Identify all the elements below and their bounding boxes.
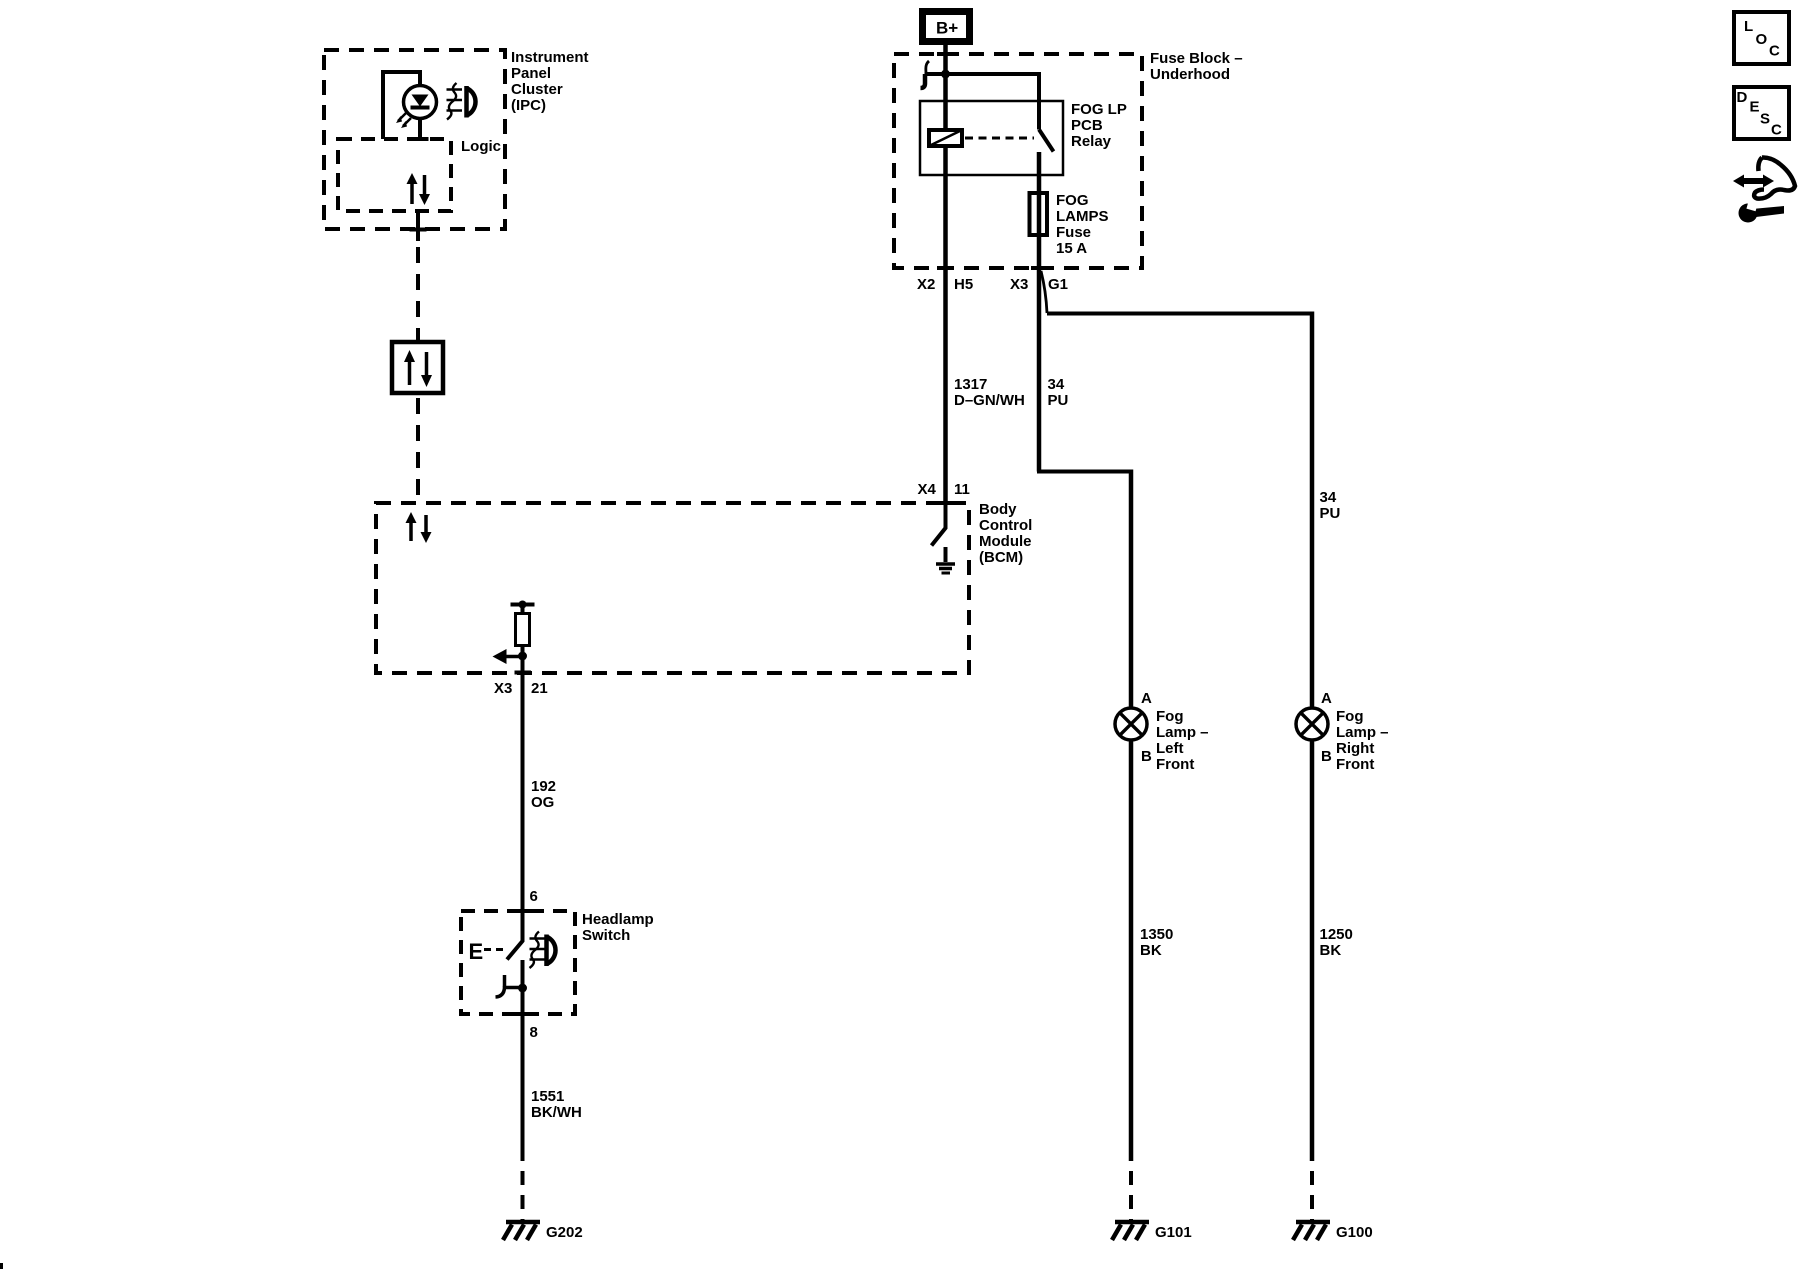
fog beam icon in switch [530,932,556,969]
LOC icon [1734,12,1789,64]
Logic box [338,139,451,211]
junction node in switch [518,984,527,993]
headlamp switch blade [507,911,523,960]
relay switch blade [1039,130,1054,152]
fog lamp right front [1296,708,1328,740]
ground G202 [503,1222,583,1241]
svg-text:PU: PU [1320,505,1341,522]
svg-text:OG: OG [531,794,554,811]
svg-text:34: 34 [1048,376,1065,393]
fog lamp left front [1115,708,1147,740]
label Body Control Module (BCM) [979,501,1032,566]
pin tick X2-H5 [937,266,954,270]
BCM resistor supply T-bar [511,601,535,614]
LED fog indicator lamp [396,86,437,129]
label FOG LAMPS Fuse 15 A [1056,192,1109,257]
connector B+ [919,8,973,45]
label Fuse Block - Underhood [1150,50,1243,83]
pin labels A B right lamp [1321,690,1332,765]
svg-text:Left: Left [1156,740,1184,757]
label 34 PU at fuse [1048,376,1069,409]
svg-text:Front: Front [1156,756,1194,773]
labels X4 11 [918,481,970,498]
svg-text:1350: 1350 [1140,926,1173,943]
ground G100 [1293,1222,1373,1241]
svg-text:Headlamp: Headlamp [582,911,654,928]
svg-text:Right: Right [1336,740,1374,757]
wire IPC indicator loop [383,72,420,139]
svg-text:A: A [1321,690,1332,707]
label Headlamp Switch [582,911,654,944]
logic up/down arrows [407,173,431,205]
svg-text:B: B [1141,748,1152,765]
wire B+ feed [943,45,948,130]
scan artifact bottom-left [0,1263,3,1269]
svg-text:21: 21 [531,680,548,697]
label 192 OG [531,778,556,811]
svg-text:C: C [1771,122,1782,139]
svg-text:Fuse: Fuse [1056,224,1091,241]
svg-text:Control: Control [979,517,1032,534]
relay coil-switch dashed link [965,137,1034,140]
svg-text:(IPC): (IPC) [511,97,546,114]
BCM internal ground [936,547,955,573]
svg-text:LAMPS: LAMPS [1056,208,1109,225]
pin labels A B left lamp [1141,690,1152,765]
pin tick X4-11 [937,501,954,505]
svg-text:G101: G101 [1155,1224,1192,1241]
wire IPC output [416,211,420,241]
label Fog Lamp - Left Front [1156,708,1209,773]
DESC icon [1734,87,1789,139]
dashed wire interface box to BCM [416,398,420,503]
svg-text:192: 192 [531,778,556,795]
svg-text:1250: 1250 [1320,926,1353,943]
wire 34 PU to right fog lamp [1047,312,1312,709]
junction node [941,70,950,79]
wire branch junction to relay switch [925,74,1040,130]
wire switch lower contact [521,960,525,1014]
wire resistor to X3 pin 21 [521,646,525,912]
svg-text:B+: B+ [936,19,958,38]
wire left fog lamp feed [1039,470,1131,709]
switch detent hook [496,975,523,997]
pin tick at Logic box top [412,137,429,141]
svg-text:Instrument: Instrument [511,49,589,66]
svg-text:E: E [469,939,484,964]
wire switch to ground [521,1014,525,1222]
pin tick X3-21 [515,671,532,675]
label Logic [461,138,501,155]
pin tick 8 [515,1012,532,1016]
wrench icon [1739,200,1785,223]
svg-text:B: B [1321,748,1332,765]
wire 1317 relay coil to BCM X4 [943,146,948,503]
pin tick X3-G1 [1031,266,1048,270]
label Instrument Panel Cluster (IPC) [511,49,589,114]
svg-text:1551: 1551 [531,1088,564,1105]
label Fog Lamp - Right Front [1336,708,1389,773]
svg-text:BK: BK [1140,942,1162,959]
svg-text:Module: Module [979,533,1032,550]
svg-text:Fog: Fog [1156,708,1184,725]
svg-text:Lamp –: Lamp – [1156,724,1209,741]
ground G101 [1112,1222,1192,1241]
wire right lamp to ground [1310,740,1315,1222]
relay coil [929,130,962,146]
svg-text:11: 11 [954,481,970,498]
svg-text:G1: G1 [1048,276,1068,293]
svg-text:Panel: Panel [511,65,551,82]
signal arrow left [493,649,523,664]
svg-text:PU: PU [1048,392,1069,409]
svg-text:E: E [1750,99,1760,116]
svg-text:G100: G100 [1336,1224,1373,1241]
labels X3 21 [494,680,548,697]
dashed link E to blade [484,948,504,951]
svg-text:X3: X3 [1010,276,1028,293]
label pin 8 [530,1024,538,1041]
pin tick at fuse block top [937,52,954,56]
BCM logic up/down arrows [406,512,432,543]
serial data interface box [392,342,443,393]
label 1551 BK/WH [531,1088,582,1121]
dashed wire IPC to interface box [416,247,420,342]
labels X3 G1 [1010,276,1068,293]
resistor in BCM [516,614,530,646]
svg-text:Front: Front [1336,756,1374,773]
svg-text:H5: H5 [954,276,973,293]
svg-text:X4: X4 [918,481,937,498]
pin tick 6 [515,909,532,913]
fog beam icon in IPC [447,83,476,120]
svg-text:PCB: PCB [1071,117,1103,134]
label FOG LP PCB Relay [1071,101,1127,150]
svg-text:Fog: Fog [1336,708,1364,725]
svg-text:Fuse Block –: Fuse Block – [1150,50,1243,67]
label 1317 D-GN/WH [954,376,1025,409]
svg-text:Cluster: Cluster [511,81,563,98]
svg-text:(BCM): (BCM) [979,549,1023,566]
svg-text:1317: 1317 [954,376,987,393]
BCM driver switch [932,503,946,546]
svg-text:X2: X2 [917,276,935,293]
label pin 6 [530,888,538,905]
Instrument Panel Cluster (IPC) box [324,50,505,229]
svg-text:X3: X3 [494,680,512,697]
svg-text:D–GN/WH: D–GN/WH [954,392,1025,409]
svg-text:15 A: 15 A [1056,240,1087,257]
branch connector slant at G1 [1041,271,1047,313]
svg-text:Underhood: Underhood [1150,66,1230,83]
relay FOG LP PCB Relay box [920,101,1063,175]
Body Control Module (BCM) box [376,503,969,673]
svg-text:FOG: FOG [1056,192,1089,209]
svg-text:BK: BK [1320,942,1342,959]
svg-text:6: 6 [530,888,538,905]
svg-text:BK/WH: BK/WH [531,1104,582,1121]
svg-text:A: A [1141,690,1152,707]
svg-text:FOG LP: FOG LP [1071,101,1127,118]
splice hook [921,61,930,88]
pin tick at IPC box bottom [410,228,427,232]
svg-text:Body: Body [979,501,1017,518]
navigation arrow icon [1733,157,1795,198]
Headlamp Switch box [461,911,575,1014]
wire relay switch to fog lamps [1037,152,1042,472]
wire left lamp to ground [1129,740,1134,1222]
label 1250 BK [1320,926,1353,959]
svg-text:Switch: Switch [582,927,630,944]
Fuse Block - Underhood box [894,54,1142,268]
labels X2 H5 [917,276,973,293]
svg-text:G202: G202 [546,1224,583,1241]
svg-text:D: D [1737,89,1748,106]
svg-text:Relay: Relay [1071,133,1112,150]
svg-text:C: C [1769,43,1780,60]
svg-text:O: O [1756,31,1768,48]
label 1350 BK [1140,926,1173,959]
svg-text:8: 8 [530,1024,538,1041]
svg-text:Logic: Logic [461,138,501,155]
label 34 PU right branch [1320,489,1341,522]
svg-text:L: L [1744,18,1753,35]
svg-text:34: 34 [1320,489,1337,506]
fuse FOG LAMPS 15 A [1030,193,1048,235]
label E [469,939,484,964]
svg-text:S: S [1760,111,1770,128]
junction node at arrow [518,652,527,661]
svg-text:Lamp –: Lamp – [1336,724,1389,741]
